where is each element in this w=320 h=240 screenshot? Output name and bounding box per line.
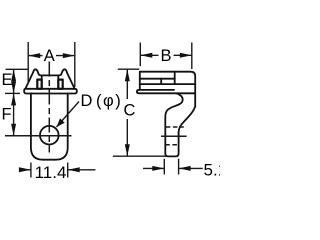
arrow 5.1 left	[152, 166, 164, 171]
hole D	[40, 126, 59, 145]
centerline vertical (front)	[48, 62, 50, 153]
dim E extension lines	[6, 68, 29, 70]
arrow 5.1 right	[179, 166, 191, 171]
arrowheads	[11, 53, 192, 173]
side view internal line upper	[140, 78, 175, 80]
leader to hole	[57, 102, 80, 128]
saddle base bar (front view)	[24, 89, 77, 94]
arrow E top	[11, 69, 16, 81]
arrow C bottom	[125, 144, 130, 156]
side view internal vertical middle	[160, 79, 162, 84]
saddle right ear	[58, 69, 74, 89]
arrow A left	[28, 53, 40, 58]
side view internal vertical right	[174, 72, 176, 84]
saddle left ear	[25, 69, 41, 89]
slot left ear	[37, 80, 41, 89]
arrow 11.4 right	[68, 167, 80, 172]
arrow B left	[140, 53, 152, 58]
dim B ext lines	[139, 43, 141, 67]
stem left S-curve	[165, 93, 182, 156]
dim 11.4 arrows shafts	[22, 169, 31, 171]
dim C baseline	[113, 155, 166, 157]
dim 11.4 ext lines	[30, 163, 32, 178]
slot right ear	[58, 80, 62, 89]
arrow A right	[63, 53, 75, 58]
arrow E bottom	[11, 81, 16, 93]
side view internal line lower	[140, 83, 195, 85]
hole centerline tick side view	[161, 135, 187, 137]
svg-text:B: B	[160, 47, 171, 65]
hole horizontal centerline + F bottom extension	[5, 135, 72, 137]
dim C top ext	[118, 68, 140, 70]
svg-text:(φ): (φ)	[96, 92, 122, 110]
svg-text:F: F	[2, 105, 12, 123]
dim F line	[13, 93, 15, 135]
stem right S-curve (wing)	[179, 106, 196, 133]
svg-text:E: E	[1, 71, 12, 89]
svg-text:D: D	[81, 92, 93, 110]
arrow F bottom	[11, 124, 16, 136]
dim A line	[28, 55, 42, 57]
dim C line	[126, 69, 128, 99]
dim E line	[13, 69, 15, 93]
arrow 11.4 left	[19, 167, 31, 172]
arrow C top	[125, 69, 130, 81]
dim 5.1 ext lines	[163, 159, 165, 175]
svg-text:11.4: 11.4	[35, 163, 67, 182]
arrow D leader	[57, 118, 65, 127]
svg-text:A: A	[44, 47, 55, 65]
dim A extension lines	[27, 42, 29, 83]
stem front view	[31, 93, 68, 159]
svg-text:C: C	[123, 102, 135, 120]
dim B line	[140, 54, 158, 56]
hidden hole lines side view	[166, 126, 184, 128]
side view body outline	[140, 72, 195, 107]
dim 5.1 shafts	[143, 167, 164, 169]
saddle bridge	[42, 74, 59, 76]
arrow F top	[11, 93, 16, 105]
flange	[137, 90, 195, 93]
arrow B right	[180, 53, 192, 58]
svg-text:5.1: 5.1	[204, 161, 221, 180]
